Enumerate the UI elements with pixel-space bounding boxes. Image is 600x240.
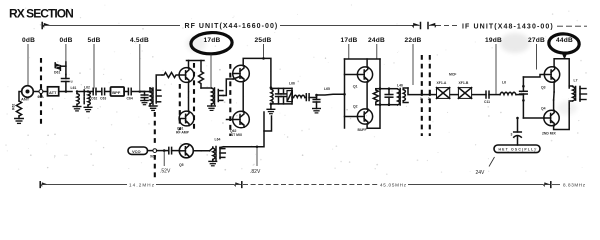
- wire to T2: [201, 87, 212, 89]
- wire to mixer gate: [223, 79, 233, 96]
- svg-text:3: 3: [511, 133, 513, 137]
- wire: [193, 150, 209, 152]
- svg-text:17dB: 17dB: [341, 37, 358, 44]
- leader wire: [348, 44, 350, 59]
- unit boundary (dashed): [40, 58, 42, 126]
- svg-text:L65: L65: [324, 87, 330, 91]
- svg-text:24V: 24V: [476, 170, 486, 176]
- wire to Q4 base: [523, 117, 544, 119]
- leader wire: [412, 44, 414, 85]
- gain label 17dB circled (RF amp): [191, 32, 233, 55]
- inductor L61: [71, 86, 80, 104]
- bandpass filter BPF: [111, 87, 125, 96]
- svg-text:L6: L6: [502, 81, 506, 85]
- svg-text:L62: L62: [84, 86, 90, 90]
- svg-text:25dB: 25dB: [255, 37, 272, 44]
- svg-text:IF UNIT(X48-1430-00): IF UNIT(X48-1430-00): [462, 23, 553, 30]
- supply label 24V: [476, 157, 495, 176]
- leader wire: [139, 44, 141, 90]
- capacitor C67: [276, 88, 282, 104]
- capacitor C61: [62, 75, 73, 92]
- resistor R65: [373, 89, 380, 105]
- svg-text:24dB: 24dB: [368, 37, 385, 44]
- interstage wire: [553, 82, 555, 92]
- antenna jack J1: [21, 86, 33, 102]
- wire: [77, 91, 88, 93]
- svg-text:L46: L46: [397, 84, 403, 88]
- svg-text:RX SECTION: RX SECTION: [9, 7, 74, 21]
- resistor R63: [162, 73, 179, 78]
- svg-text:C64: C64: [127, 97, 133, 101]
- junction: [262, 57, 265, 60]
- junction node: [139, 90, 142, 93]
- interstage wire: [188, 82, 190, 111]
- svg-text:4.5dB: 4.5dB: [130, 37, 149, 44]
- transistor Q66 (buffer upper): [345, 67, 373, 89]
- interstage wire: [242, 81, 244, 111]
- svg-text:0dB: 0dB: [59, 37, 72, 44]
- connector pins: [421, 93, 424, 96]
- svg-text:1ST MIX: 1ST MIX: [229, 133, 243, 137]
- svg-text:C62: C62: [91, 97, 97, 101]
- svg-text:17dB: 17dB: [204, 37, 221, 44]
- junction: [65, 90, 68, 93]
- leader wire: [376, 44, 378, 59]
- capacitor C63: [96, 88, 111, 100]
- scan noise speckle: [5, 4, 587, 175]
- svg-text:R62: R62: [12, 104, 16, 110]
- wire to Q3 base: [523, 75, 544, 78]
- svg-text:XF1-A: XF1-A: [437, 81, 447, 85]
- attenuator box ATT: [48, 87, 59, 96]
- bottom frequency line 45.05MHz span: [243, 182, 586, 188]
- capacitor C69: [305, 94, 317, 101]
- svg-text:14.2MHz: 14.2MHz: [129, 183, 155, 188]
- VCO block: [128, 147, 148, 154]
- svg-text:u: u: [71, 80, 73, 84]
- svg-text:.52V: .52V: [160, 169, 171, 175]
- svg-text:RF UNIT(X44-1660-00): RF UNIT(X44-1660-00): [185, 23, 278, 30]
- svg-text:45.05MHz: 45.05MHz: [380, 183, 407, 188]
- ground: [208, 106, 216, 110]
- ground: [84, 105, 92, 112]
- transformer T3: [389, 88, 408, 105]
- LO injection wire: [224, 116, 272, 147]
- svg-text:Q1: Q1: [353, 85, 358, 89]
- bottom frequency line 14.2MHz span: [40, 182, 242, 188]
- svg-text:D61: D61: [54, 71, 60, 75]
- leader wire: [536, 44, 538, 70]
- bias lead .52V: [163, 151, 165, 166]
- svg-text:XF1-B: XF1-B: [459, 81, 469, 85]
- inductor L66: [292, 95, 305, 97]
- leader wire: [210, 54, 212, 87]
- svg-text:L61: L61: [71, 86, 77, 90]
- leader arrow: [563, 54, 567, 59]
- wire: [59, 91, 72, 93]
- emitter wire: [367, 59, 380, 128]
- collector wire: [366, 59, 368, 67]
- capacitor C62: [88, 88, 97, 100]
- svg-text:ANT: ANT: [21, 97, 30, 102]
- transformer L64: [210, 147, 226, 161]
- buffer stage rails: [344, 59, 346, 128]
- RF unit bracket line: [42, 23, 420, 29]
- svg-text:2: 2: [428, 97, 430, 101]
- svg-text:27dB: 27dB: [528, 37, 545, 44]
- ground: [313, 109, 321, 113]
- wire: [33, 91, 39, 93]
- ground: [15, 116, 23, 123]
- capacitor C64: [124, 88, 140, 100]
- capacitor C65: [140, 92, 148, 101]
- heterodyne oscillator block: [494, 145, 540, 153]
- ground: [141, 101, 148, 105]
- svg-text:5dB: 5dB: [87, 37, 100, 44]
- svg-text:1: 1: [420, 97, 422, 101]
- svg-text:Q2: Q2: [353, 105, 358, 109]
- transformer T2: [212, 88, 224, 106]
- transistor Q2 (RF amp lower): [179, 111, 194, 126]
- svg-text:19dB: 19dB: [485, 37, 502, 44]
- collector rail: [189, 61, 205, 69]
- transistor Q5 (VCO buffer): [179, 144, 193, 167]
- shield dashes: [179, 84, 181, 130]
- boundary dashes at VCO: [154, 112, 156, 147]
- transistor Q3 (2nd mix upper): [541, 67, 560, 90]
- emitter return: [554, 103, 570, 130]
- svg-text:8.83MHz: 8.83MHz: [563, 183, 586, 188]
- svg-text:Q3: Q3: [541, 86, 546, 90]
- svg-text:VCO: VCO: [132, 149, 141, 154]
- svg-text:44dB: 44dB: [556, 37, 573, 44]
- trimmer capacitor TC1: [287, 88, 292, 104]
- leader wire: [495, 44, 497, 95]
- capacitor C71: [380, 87, 393, 106]
- wire T1 secondary to gate: [156, 75, 162, 89]
- junction: [516, 117, 519, 120]
- svg-text:22dB: 22dB: [405, 37, 422, 44]
- transistor Q62 (1st mix upper): [233, 65, 250, 82]
- svg-text:BPF: BPF: [112, 90, 121, 95]
- capacitor C11: [484, 91, 500, 104]
- inductor L62 with core: [84, 86, 90, 106]
- crystal filter XF1-B: [458, 88, 471, 99]
- node connector pin: [38, 90, 45, 99]
- coupling capacitor C13: [511, 118, 522, 145]
- junction: [270, 86, 273, 89]
- ground: [149, 106, 157, 110]
- resistor R64 (drain load): [199, 61, 204, 89]
- tank rails: [271, 87, 292, 89]
- inductor L6: [500, 92, 523, 94]
- IF unit boundary dashes: [421, 55, 423, 136]
- wire to buffer: [317, 93, 345, 96]
- scan smudge: [500, 33, 530, 53]
- IF unit bracket line: [428, 23, 587, 29]
- capacitor C70: [169, 147, 180, 153]
- wire: [148, 150, 153, 152]
- leader wire: [93, 44, 95, 89]
- transformer L7: [569, 86, 575, 101]
- capacitor C68: [281, 88, 287, 104]
- resonator cap C12: [520, 77, 528, 118]
- svg-text:C11: C11: [484, 100, 490, 104]
- ground: [209, 159, 217, 165]
- collector rail: [554, 59, 569, 88]
- resistor R62: [12, 92, 22, 117]
- svg-text:Q5: Q5: [179, 163, 184, 167]
- crystal filter XF1-A: [437, 88, 450, 99]
- transistor Q67 (buffer lower): [345, 105, 373, 125]
- svg-text:ATT: ATT: [49, 90, 57, 95]
- leader wire: [27, 44, 29, 85]
- junction: [379, 87, 382, 90]
- wire: [450, 94, 458, 96]
- leader wire: [263, 44, 265, 58]
- svg-text:MCF: MCF: [449, 73, 456, 77]
- node connector pin: [150, 149, 157, 159]
- ground: [73, 104, 81, 111]
- junction: [256, 146, 259, 149]
- svg-text:60A: 60A: [38, 95, 45, 99]
- wire: [157, 150, 168, 152]
- mixer boundary dashes: [229, 64, 231, 136]
- leader wire: [65, 44, 67, 62]
- junction: [163, 149, 166, 152]
- junction node with cap to ground: [313, 94, 320, 109]
- transistor Q1 (RF amp upper): [179, 68, 194, 83]
- transistor Q4 (2nd mix lower): [541, 106, 559, 125]
- bias lead .82V: [256, 147, 258, 166]
- wire: [472, 94, 486, 96]
- svg-text:.82V: .82V: [250, 169, 261, 175]
- IF output terminal: [580, 87, 587, 102]
- ground: [267, 104, 275, 114]
- svg-text:Q4: Q4: [541, 106, 546, 110]
- interstage wire: [366, 82, 368, 109]
- gain label 44dB circled (2nd mix): [548, 33, 579, 54]
- svg-text:RF AMP: RF AMP: [176, 131, 190, 135]
- limiter diodes D61: [54, 62, 66, 75]
- svg-text:L7: L7: [574, 79, 578, 83]
- svg-text:L64: L64: [215, 138, 221, 142]
- svg-text:L66: L66: [289, 82, 295, 86]
- transistor Q63 (1st mix lower): [227, 111, 250, 128]
- wire: [43, 91, 48, 93]
- wire to IF boundary: [408, 88, 422, 95]
- svg-text:2ND MIX: 2ND MIX: [542, 132, 556, 136]
- transformer T1: [140, 88, 161, 106]
- svg-text:BUFF: BUFF: [358, 128, 367, 132]
- transformer T4: [271, 89, 273, 104]
- svg-text:C63: C63: [100, 97, 106, 101]
- collector rail to tank: [243, 58, 271, 87]
